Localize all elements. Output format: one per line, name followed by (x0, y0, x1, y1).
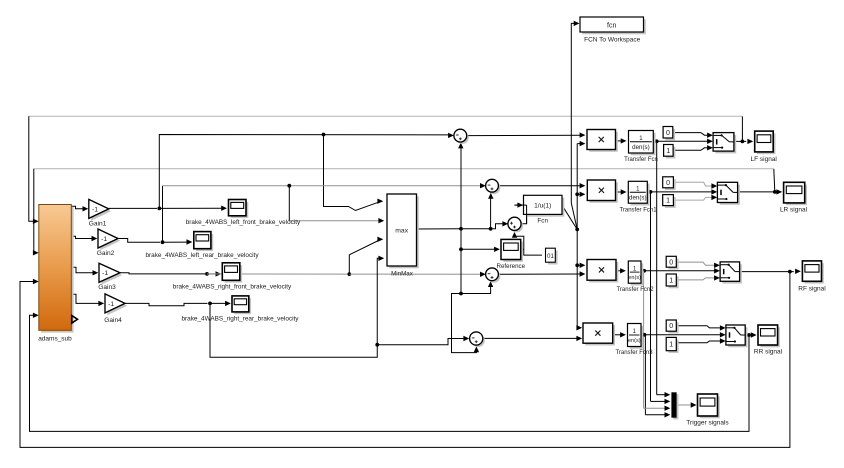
svg-text:FCN To Workspace: FCN To Workspace (584, 36, 640, 43)
svg-text:fcn: fcn (607, 22, 616, 29)
svg-text:Transfer Fcn3: Transfer Fcn3 (615, 350, 653, 356)
svg-text:-1: -1 (102, 270, 108, 277)
svg-text:1: 1 (666, 198, 670, 205)
svg-text:1: 1 (669, 342, 673, 349)
svg-text:0: 0 (666, 180, 670, 187)
svg-text:1: 1 (666, 148, 670, 155)
svg-text:den(s): den(s) (632, 144, 650, 151)
svg-text:LR signal: LR signal (780, 207, 808, 214)
svg-text:01: 01 (547, 254, 554, 260)
svg-text:en(s): en(s) (628, 275, 641, 281)
svg-text:1/u(1): 1/u(1) (534, 203, 551, 210)
svg-text:Trigger signals: Trigger signals (686, 420, 729, 427)
svg-text:RR signal: RR signal (754, 348, 783, 355)
svg-text:en(s): en(s) (628, 338, 641, 344)
svg-text:0: 0 (666, 130, 670, 137)
svg-text:Transfer Fcn: Transfer Fcn (624, 157, 658, 163)
svg-text:Gain2: Gain2 (97, 250, 115, 257)
svg-text:brake_4WABS_right_rear_brake_v: brake_4WABS_right_rear_brake_velocity (182, 315, 300, 322)
svg-text:den(s): den(s) (629, 194, 647, 201)
svg-text:brake_4WABS_right_front_brake_: brake_4WABS_right_front_brake_velocity (173, 283, 292, 290)
svg-text:0: 0 (669, 323, 673, 330)
svg-text:adams_sub: adams_sub (38, 336, 72, 343)
svg-text:brake_4WABS_left_front_brake_v: brake_4WABS_left_front_brake_velocity (186, 219, 301, 226)
svg-text:Transfer Fcn1: Transfer Fcn1 (619, 208, 657, 214)
svg-text:Transfer Fcn2: Transfer Fcn2 (616, 287, 654, 293)
svg-text:MinMax: MinMax (391, 271, 414, 278)
svg-text:RF signal: RF signal (798, 286, 826, 293)
svg-text:brake_4WABS_left_rear_brake_ve: brake_4WABS_left_rear_brake_velocity (145, 252, 259, 259)
svg-text:max: max (395, 228, 408, 235)
svg-text:Gain4: Gain4 (104, 317, 122, 324)
svg-text:Reference: Reference (497, 263, 526, 270)
svg-text:Gain3: Gain3 (98, 284, 116, 291)
svg-text:LF signal: LF signal (751, 156, 778, 163)
svg-text:1: 1 (669, 278, 673, 285)
svg-text:-1: -1 (101, 236, 107, 243)
svg-text:Gain1: Gain1 (89, 221, 107, 228)
svg-text:-1: -1 (108, 301, 114, 308)
svg-text:-1: -1 (92, 206, 98, 213)
svg-text:Fcn: Fcn (537, 217, 548, 224)
svg-text:0: 0 (669, 259, 673, 266)
